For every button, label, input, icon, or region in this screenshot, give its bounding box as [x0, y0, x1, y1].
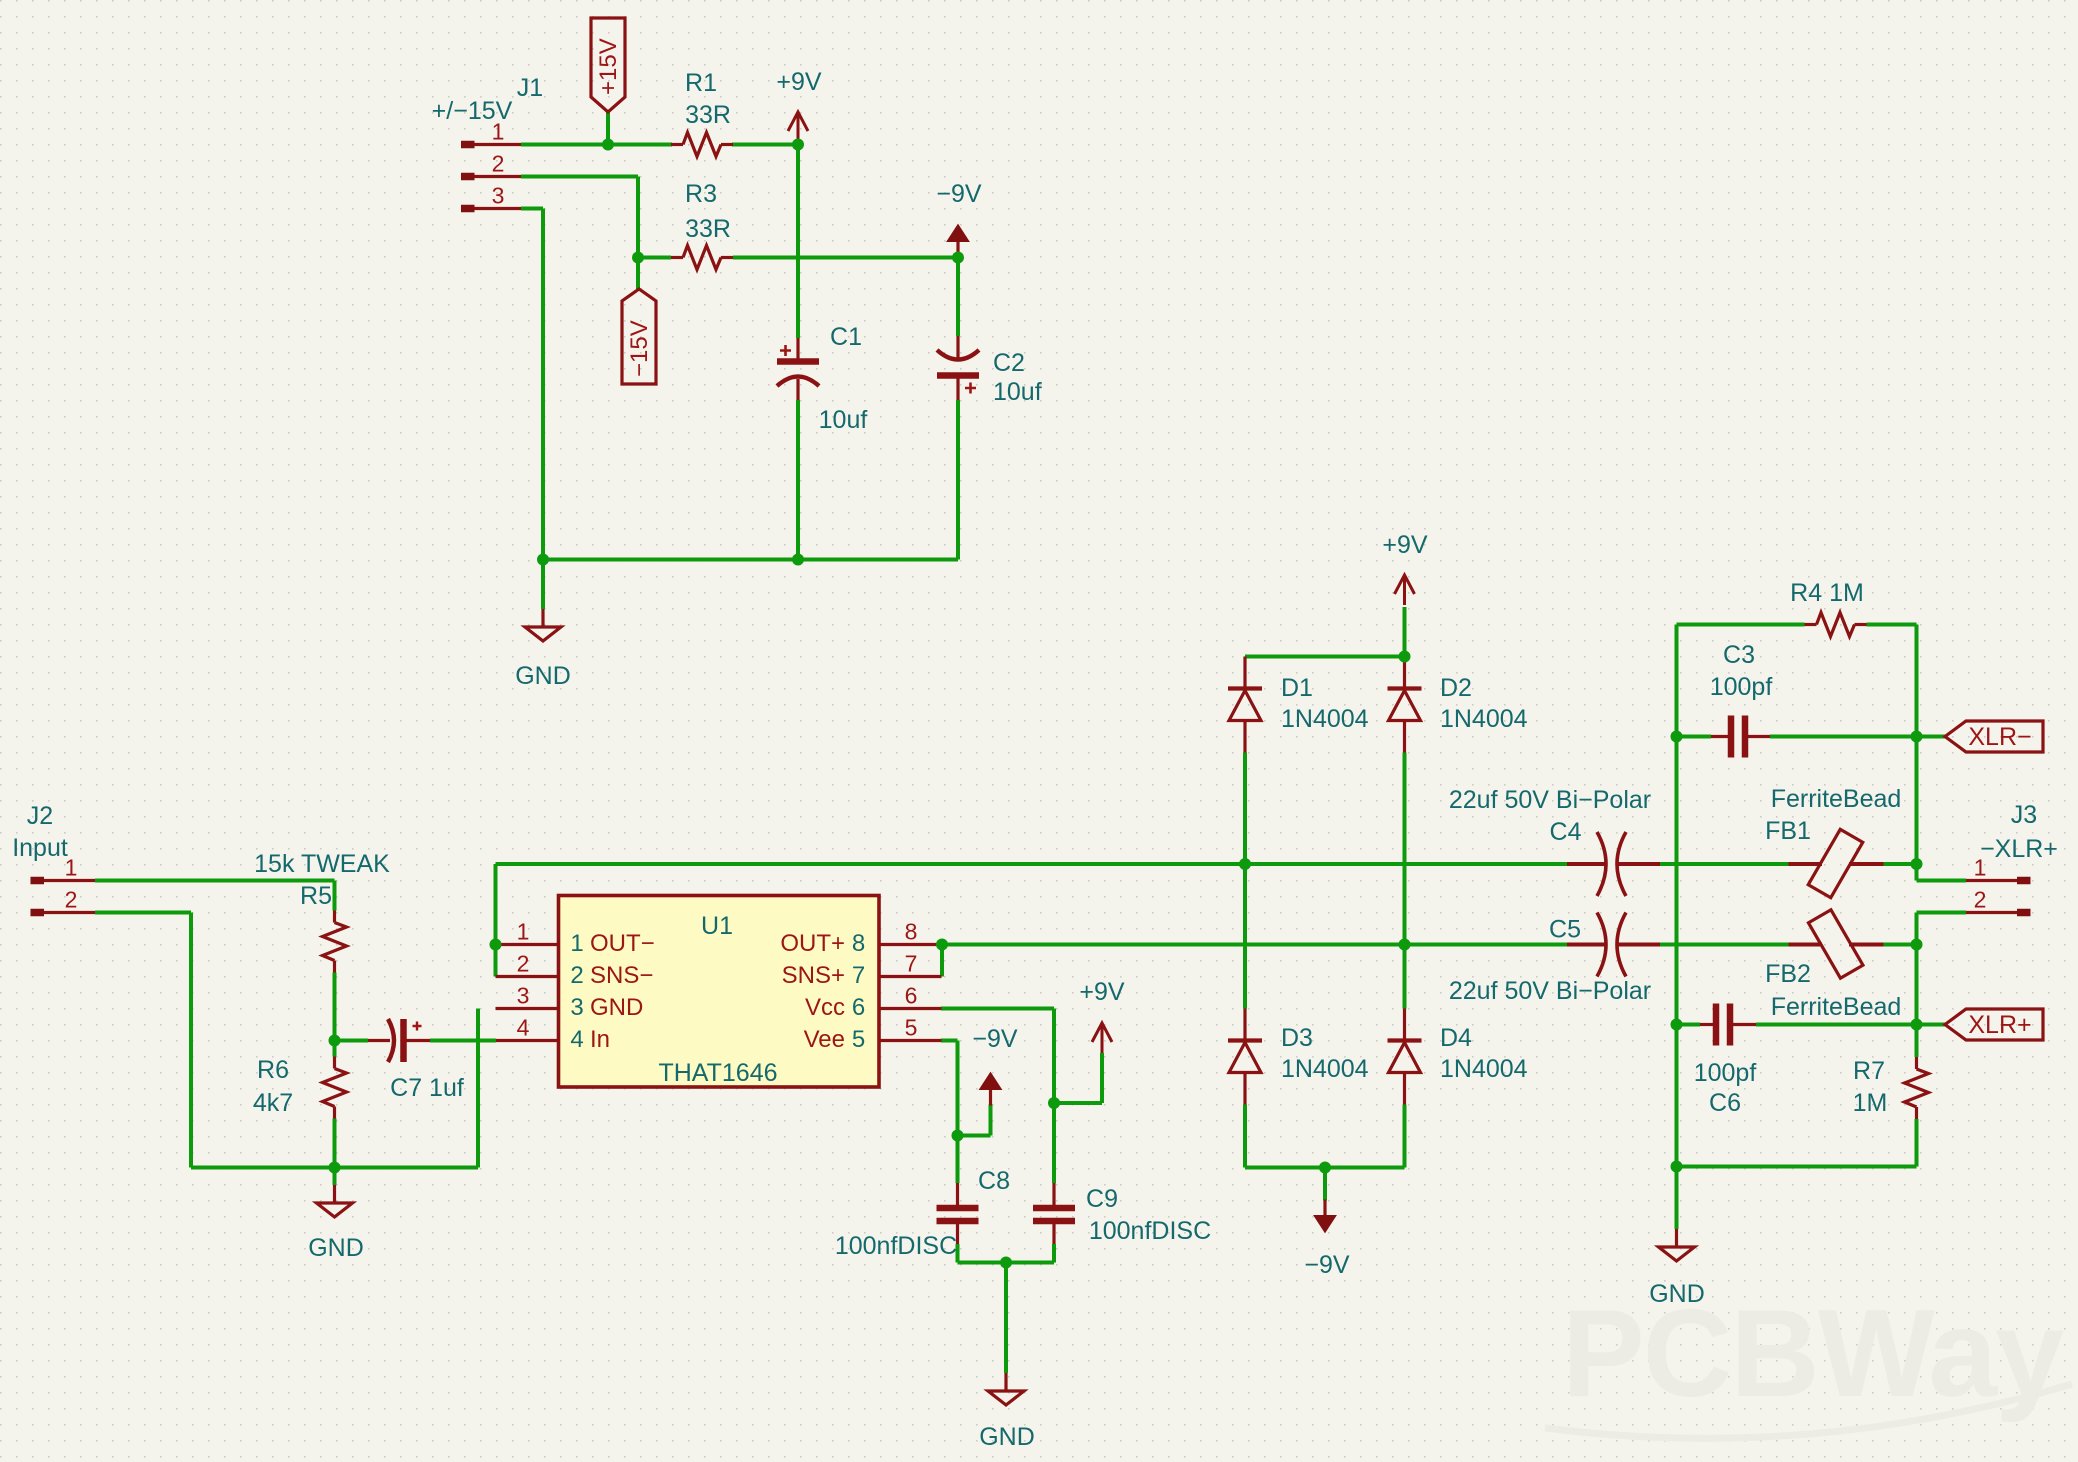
wire C8 top	[956, 1136, 960, 1184]
svg-text:D2: D2	[1440, 674, 1472, 702]
resistor R7	[1915, 1057, 1918, 1069]
svg-text:FB2: FB2	[1765, 960, 1811, 988]
svg-text:1M: 1M	[1853, 1089, 1888, 1117]
svg-text:100nfDISC: 100nfDISC	[1089, 1217, 1211, 1245]
svg-text:SNS+: SNS+	[782, 962, 845, 989]
svg-text:R7: R7	[1853, 1057, 1885, 1085]
ferrite bead FB1	[1789, 862, 1823, 866]
svg-text:10uf: 10uf	[819, 406, 868, 434]
junction ground bus / C1	[792, 554, 804, 566]
svg-text:C1: C1	[830, 323, 862, 351]
svg-text:2: 2	[1974, 887, 1987, 913]
junction Vcc / C9	[1048, 1097, 1060, 1109]
svg-text:10uf: 10uf	[993, 378, 1042, 406]
connector J1 pin 2 wire	[521, 175, 638, 179]
svg-text:6: 6	[905, 983, 918, 1009]
wire +9V mid stub	[1054, 1101, 1102, 1105]
junction XLR+ J3.2	[1911, 939, 1923, 951]
ground mid	[1004, 1373, 1007, 1391]
junction U1 pin1	[490, 939, 502, 951]
connector J1 pin 1 wire	[521, 143, 672, 147]
svg-text:6: 6	[852, 994, 865, 1021]
connector J3	[1966, 879, 2017, 882]
svg-text:4: 4	[517, 1015, 530, 1041]
svg-text:+9V: +9V	[1382, 531, 1428, 559]
connector J1 pin 3 wire	[521, 207, 543, 211]
svg-text:Vee: Vee	[804, 1026, 845, 1053]
svg-text:C7 1uf: C7 1uf	[390, 1074, 464, 1102]
svg-text:C5: C5	[1549, 916, 1581, 944]
wire U1 pin6 Vcc to +9V	[941, 1007, 1054, 1011]
wire up to U1 pin3	[476, 1009, 480, 1168]
junction -9V bottom	[1319, 1162, 1331, 1174]
wire R5 to junction	[333, 973, 337, 1041]
svg-text:R1: R1	[685, 69, 717, 97]
wire D2-D4 vertical	[1403, 753, 1407, 1009]
svg-text:7: 7	[905, 951, 918, 977]
power -9V bottom	[1323, 1200, 1326, 1218]
junction C8-C9 gnd	[1000, 1257, 1012, 1269]
svg-text:FerriteBead: FerriteBead	[1771, 785, 1902, 813]
svg-text:100pf: 100pf	[1710, 673, 1773, 701]
junction at -9V node	[952, 252, 964, 264]
junction ground bus / pin3	[537, 554, 549, 566]
wire OUT+ bus (XLR+ line)	[942, 943, 1567, 947]
svg-text:SNS−: SNS−	[590, 962, 653, 989]
junction C3 left	[1671, 731, 1683, 743]
svg-text:5: 5	[852, 1026, 865, 1053]
capacitor C5 bipolar	[1567, 943, 1605, 947]
connector J2 pin1 wire to R5	[95, 879, 335, 883]
svg-text:R6: R6	[257, 1056, 289, 1084]
wire C8 bottom	[956, 1244, 960, 1263]
power +9V mid	[1092, 1023, 1112, 1053]
svg-text:XLR−: XLR−	[1968, 723, 2031, 751]
svg-text:1N4004: 1N4004	[1281, 705, 1369, 733]
wire R3 right to -9V node	[733, 256, 958, 260]
wire GND stub mid	[1004, 1263, 1008, 1374]
svg-text:PCBWay: PCBWay	[1562, 1285, 2064, 1423]
svg-text:5: 5	[905, 1015, 918, 1041]
junction D1 / XLR- line	[1239, 858, 1251, 870]
junction D2 / XLR+ line	[1399, 939, 1411, 951]
wire C6 row	[1677, 1023, 1701, 1027]
capacitor C9	[1052, 1183, 1055, 1205]
svg-text:100nfDISC: 100nfDISC	[835, 1232, 957, 1260]
junction R5/R6/C7	[329, 1035, 341, 1047]
resistor R6	[333, 1057, 336, 1069]
junction bottom right gnd	[1671, 1161, 1683, 1173]
resistor R1	[671, 143, 683, 146]
wire C9 bottom	[1052, 1244, 1056, 1263]
svg-text:OUT−: OUT−	[590, 930, 655, 957]
svg-text:3: 3	[570, 994, 583, 1021]
svg-text:C8: C8	[978, 1167, 1010, 1195]
wire -9V mid stub	[958, 1134, 991, 1138]
svg-text:THAT1646: THAT1646	[658, 1059, 777, 1087]
junction at +15V / J1.1	[602, 139, 614, 151]
svg-text:8: 8	[905, 919, 918, 945]
junction at +9V node	[792, 139, 804, 151]
svg-text:+/−15V: +/−15V	[432, 97, 513, 125]
svg-text:+9V: +9V	[1079, 978, 1125, 1006]
wire +15V stem	[606, 112, 610, 145]
svg-text:J2: J2	[27, 802, 53, 830]
wire C1 bottom	[796, 400, 800, 560]
wire right block right vertical upper	[1915, 625, 1919, 881]
svg-text:100pf: 100pf	[1694, 1059, 1757, 1087]
svg-text:C2: C2	[993, 349, 1025, 377]
power +9V diodes	[1395, 575, 1415, 605]
junction Vee / C8	[952, 1130, 964, 1142]
ground bottom right	[1675, 1229, 1678, 1247]
resistor R4	[1805, 623, 1817, 626]
junction at -15V / R3	[632, 252, 644, 264]
junction J2 ground bus	[329, 1162, 341, 1174]
diode D2	[1403, 657, 1406, 689]
svg-text:GND: GND	[979, 1423, 1035, 1451]
capacitor C3	[1711, 735, 1728, 738]
wire R6	[333, 1041, 337, 1057]
wire diode top bus	[1245, 655, 1405, 659]
power -9V top	[956, 240, 959, 258]
wire C2 bottom	[956, 400, 960, 560]
power +9V top	[788, 112, 808, 142]
wire J3 pin1	[1917, 879, 1967, 883]
svg-text:+15V: +15V	[595, 38, 622, 95]
svg-text:2: 2	[517, 951, 530, 977]
wire U1 pins1-2 vertical	[494, 864, 498, 977]
junction XLR- J3.1	[1911, 858, 1923, 870]
wire +9V diodes stem	[1403, 607, 1407, 657]
svg-text:GND: GND	[515, 662, 571, 690]
wire C8-C9 ground bus	[958, 1261, 1055, 1265]
svg-text:GND: GND	[590, 994, 643, 1021]
U1 right pin stubs	[879, 943, 942, 946]
svg-text:3: 3	[517, 983, 530, 1009]
IC U1 THAT1646 body	[559, 896, 880, 1088]
svg-text:−15V: −15V	[626, 320, 653, 377]
svg-text:1N4004: 1N4004	[1281, 1055, 1369, 1083]
svg-text:C3: C3	[1723, 641, 1755, 669]
svg-text:FB1: FB1	[1765, 817, 1811, 845]
capacitor C7	[368, 1039, 390, 1042]
wire top ground bus	[543, 558, 958, 562]
svg-text:2: 2	[492, 151, 505, 177]
wire R7 bottom	[1915, 1119, 1919, 1167]
svg-text:R4 1M: R4 1M	[1790, 579, 1864, 607]
wire U1 pin7 jog	[940, 945, 944, 977]
svg-text:C4: C4	[1550, 818, 1582, 846]
svg-text:GND: GND	[308, 1234, 364, 1262]
wire C9 top	[1052, 1103, 1056, 1183]
svg-text:22uf 50V Bi−Polar: 22uf 50V Bi−Polar	[1449, 786, 1651, 814]
junction C3 right	[1911, 731, 1923, 743]
wire +9V node down to C1	[796, 145, 800, 339]
svg-text:D3: D3	[1281, 1024, 1313, 1052]
wire U1 pin5 Vee down	[941, 1039, 958, 1043]
wire GND stub J2	[333, 1168, 337, 1186]
diode D3	[1243, 1009, 1246, 1041]
svg-text:J3: J3	[2011, 801, 2037, 829]
svg-text:C9: C9	[1086, 1185, 1118, 1213]
svg-text:In: In	[590, 1026, 610, 1053]
connector J1	[461, 141, 475, 149]
svg-text:GND: GND	[1649, 1280, 1705, 1308]
wire J3 pin2	[1917, 911, 1967, 915]
PCBWay watermark	[1562, 1285, 2064, 1423]
ground top	[541, 609, 544, 627]
hierarchical label XLR+	[1945, 1009, 2043, 1040]
svg-text:7: 7	[852, 962, 865, 989]
svg-text:R5: R5	[300, 882, 332, 910]
U1 left pin stubs	[496, 943, 559, 946]
junction C6 right / R7	[1911, 1019, 1923, 1031]
svg-text:1: 1	[570, 930, 583, 957]
svg-text:C6: C6	[1709, 1089, 1741, 1117]
svg-text:15k TWEAK: 15k TWEAK	[254, 850, 390, 878]
capacitor C8	[956, 1183, 959, 1205]
wire D1-D3 vertical	[1243, 753, 1247, 1009]
svg-text:33R: 33R	[685, 101, 731, 129]
diode D1	[1243, 657, 1246, 689]
capacitor C4 bipolar	[1567, 862, 1605, 866]
junction +9V diode bus	[1399, 651, 1411, 663]
svg-text:4: 4	[570, 1026, 583, 1053]
connector J2	[31, 877, 45, 885]
wire bottom right bus	[1677, 1165, 1917, 1169]
svg-text:OUT+: OUT+	[780, 930, 845, 957]
capacitor C1	[796, 338, 799, 359]
ferrite bead FB2	[1789, 943, 1823, 947]
svg-text:22uf 50V Bi−Polar: 22uf 50V Bi−Polar	[1449, 977, 1651, 1005]
power flag -15V	[622, 289, 656, 384]
svg-text:−XLR+: −XLR+	[1980, 835, 2058, 863]
svg-text:2: 2	[570, 962, 583, 989]
wire R4 row	[1677, 623, 1805, 627]
svg-text:D4: D4	[1440, 1024, 1472, 1052]
capacitor C2	[956, 336, 959, 358]
svg-text:−9V: −9V	[936, 180, 982, 208]
diode D4	[1403, 1009, 1406, 1041]
svg-text:2: 2	[65, 887, 78, 913]
svg-text:1N4004: 1N4004	[1440, 705, 1528, 733]
svg-text:+9V: +9V	[776, 68, 822, 96]
svg-text:U1: U1	[701, 912, 733, 940]
capacitor C6	[1700, 1023, 1713, 1026]
svg-text:R3: R3	[685, 180, 717, 208]
svg-text:−9V: −9V	[972, 1025, 1018, 1053]
svg-text:FerriteBead: FerriteBead	[1771, 993, 1902, 1021]
svg-text:1: 1	[517, 919, 530, 945]
connector J2 pin2 wire down and along bottom	[95, 911, 191, 915]
wire -15V stem	[636, 258, 640, 290]
svg-text:3: 3	[492, 183, 505, 209]
svg-text:Vcc: Vcc	[805, 994, 845, 1021]
wire -9V node down to C2	[956, 258, 960, 337]
svg-text:J1: J1	[517, 74, 543, 102]
junction U1 pin8	[936, 939, 948, 951]
ground J2	[333, 1185, 336, 1203]
wire OUT- bus (XLR- line)	[496, 862, 1568, 866]
wire C3 row	[1677, 735, 1712, 739]
wire -9V bottom stub	[1323, 1168, 1327, 1201]
power -9V mid	[989, 1088, 992, 1106]
resistor R3	[671, 256, 683, 259]
wire R3 left	[638, 256, 671, 260]
power flag +15V	[591, 18, 625, 112]
svg-text:D1: D1	[1281, 674, 1313, 702]
wire C7 leads	[335, 1039, 369, 1043]
svg-text:1N4004: 1N4004	[1440, 1055, 1528, 1083]
svg-text:4k7: 4k7	[253, 1089, 293, 1117]
wire D3 bottom	[1243, 1105, 1247, 1168]
svg-text:−9V: −9V	[1304, 1251, 1350, 1279]
svg-text:33R: 33R	[685, 215, 731, 243]
wire D4 bottom	[1403, 1105, 1407, 1168]
resistor R5	[333, 911, 336, 923]
svg-text:8: 8	[852, 930, 865, 957]
wire right block left vertical	[1675, 625, 1679, 1230]
wire GND stub top	[541, 560, 545, 610]
hierarchical label XLR-	[1945, 721, 2043, 752]
junction C6 left	[1671, 1019, 1683, 1031]
svg-text:Input: Input	[12, 834, 68, 862]
svg-text:XLR+: XLR+	[1968, 1011, 2031, 1039]
wire diode bottom bus	[1245, 1166, 1405, 1170]
